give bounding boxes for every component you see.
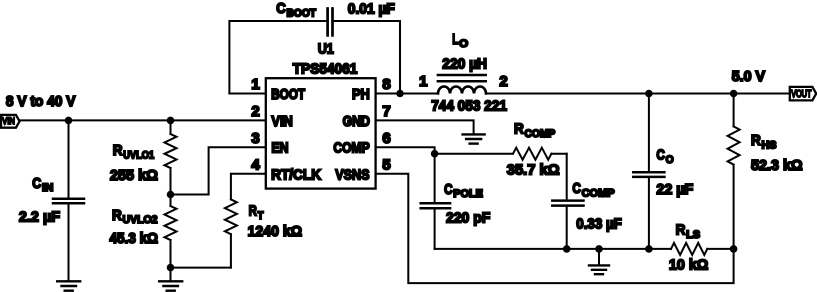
svg-text:5.0 V: 5.0 V xyxy=(732,68,765,85)
ground (GND pin) xyxy=(463,134,485,143)
wire pin 1 stub xyxy=(229,93,265,95)
svg-text:744 053 221: 744 053 221 xyxy=(431,98,507,115)
svg-text:GND: GND xyxy=(343,113,370,130)
svg-text:220 µH: 220 µH xyxy=(442,55,487,72)
node CO top junction xyxy=(645,90,653,98)
svg-text:2.2 µF: 2.2 µF xyxy=(19,208,60,225)
svg-text:1240 kΩ: 1240 kΩ xyxy=(248,223,302,240)
resistor RUVLO1 xyxy=(110,120,177,194)
svg-text:5: 5 xyxy=(382,156,390,173)
node COMP CPOLE junction xyxy=(431,150,439,158)
svg-text:LS: LS xyxy=(686,229,700,241)
svg-text:1: 1 xyxy=(251,76,259,93)
svg-text:BOOT: BOOT xyxy=(271,86,305,103)
output port tag VOUT xyxy=(790,87,816,101)
ground (CIN) xyxy=(57,281,80,290)
wire pin 6 COMP stub xyxy=(376,147,435,154)
node RT ground junction xyxy=(167,264,175,272)
svg-text:45.3 kΩ: 45.3 kΩ xyxy=(110,230,159,247)
capacitor CIN xyxy=(19,120,84,281)
node RHS top junction xyxy=(730,90,738,98)
node feedback junction xyxy=(730,245,738,253)
svg-text:0.33 µF: 0.33 µF xyxy=(576,215,622,232)
svg-text:UVLO1: UVLO1 xyxy=(123,149,154,161)
svg-text:220 pF: 220 pF xyxy=(446,210,490,227)
svg-text:O: O xyxy=(459,38,468,50)
wire pin 8 PH stub xyxy=(376,93,438,95)
node ground junction xyxy=(595,245,603,253)
svg-text:VIN: VIN xyxy=(271,113,292,130)
svg-text:C: C xyxy=(444,181,453,198)
svg-text:UVLO2: UVLO2 xyxy=(123,214,158,226)
resistor RUVLO2 xyxy=(110,195,177,268)
svg-text:C: C xyxy=(656,147,665,164)
resistor RLS xyxy=(669,222,734,274)
ground (compensation) xyxy=(589,249,609,274)
svg-text:EN: EN xyxy=(271,140,288,157)
svg-text:RT/CLK: RT/CLK xyxy=(271,167,321,184)
capacitor CBOOT xyxy=(229,0,400,93)
svg-text:COMP: COMP xyxy=(525,128,556,140)
svg-text:C: C xyxy=(32,175,41,192)
svg-text:R: R xyxy=(751,132,761,149)
svg-text:R: R xyxy=(514,121,524,138)
wire compensation bottom rail xyxy=(435,248,671,250)
inductor LO xyxy=(431,31,507,115)
wire EN to pin 3 xyxy=(171,147,266,194)
node CIN junction xyxy=(65,117,73,125)
svg-text:U1: U1 xyxy=(318,40,334,57)
svg-text:7: 7 xyxy=(382,103,390,120)
wire PH output rail xyxy=(486,93,790,95)
resistor RHS xyxy=(728,94,803,249)
svg-text:C: C xyxy=(276,0,286,17)
svg-text:6: 6 xyxy=(382,130,390,147)
svg-text:22 µF: 22 µF xyxy=(656,181,693,198)
svg-text:8: 8 xyxy=(382,76,390,93)
svg-text:VSNS: VSNS xyxy=(335,167,369,184)
wire pin 7 GND stub xyxy=(376,120,474,134)
svg-text:BOOT: BOOT xyxy=(287,8,317,20)
node PH CBOOT junction xyxy=(396,90,404,98)
svg-text:10 kΩ: 10 kΩ xyxy=(669,257,708,274)
wire RT bottom return xyxy=(171,267,231,269)
svg-text:2: 2 xyxy=(251,103,259,120)
IC U1 TPS54061 body xyxy=(266,40,376,188)
svg-text:POLE: POLE xyxy=(453,188,483,200)
input port tag VIN xyxy=(1,115,20,128)
svg-text:L: L xyxy=(452,31,458,48)
resistor RCOMP xyxy=(435,121,567,179)
svg-text:R: R xyxy=(112,207,122,224)
svg-text:COMP: COMP xyxy=(333,140,369,157)
svg-text:R: R xyxy=(113,142,123,159)
svg-text:35.7 kΩ: 35.7 kΩ xyxy=(507,162,560,179)
svg-text:1: 1 xyxy=(419,73,427,90)
node CO bottom junction xyxy=(645,245,653,253)
wire VIN rail to pin 2 xyxy=(20,119,266,121)
wire pin 5 VSNS feedback xyxy=(376,174,734,283)
node CCOMP bottom junction xyxy=(563,245,571,253)
svg-text:3: 3 xyxy=(251,130,259,147)
svg-text:PH: PH xyxy=(352,86,370,103)
svg-text:TPS54061: TPS54061 xyxy=(293,60,358,77)
svg-text:52.3 kΩ: 52.3 kΩ xyxy=(751,157,803,174)
capacitor CCOMP xyxy=(552,154,622,249)
svg-text:O: O xyxy=(666,154,674,166)
svg-text:T: T xyxy=(258,210,264,222)
svg-text:IN: IN xyxy=(42,182,53,194)
ground (RUVLO2 / RT) xyxy=(159,281,182,290)
svg-text:R: R xyxy=(676,222,686,239)
svg-text:HS: HS xyxy=(762,140,777,152)
svg-text:R: R xyxy=(249,203,257,220)
node EN divider junction xyxy=(167,191,175,199)
svg-text:4: 4 xyxy=(251,156,260,173)
svg-text:COMP: COMP xyxy=(582,187,615,199)
svg-text:255 kΩ: 255 kΩ xyxy=(110,167,158,184)
svg-text:VOUT: VOUT xyxy=(791,89,811,100)
capacitor CPOLE xyxy=(421,154,491,249)
svg-text:8 V to 40 V: 8 V to 40 V xyxy=(6,93,76,110)
svg-text:2: 2 xyxy=(499,73,507,90)
capacitor CO xyxy=(633,94,693,249)
svg-text:0.01 µF: 0.01 µF xyxy=(348,1,395,18)
node RUVLO1 junction xyxy=(167,117,175,125)
svg-text:C: C xyxy=(572,180,581,197)
svg-text:VIN: VIN xyxy=(2,116,15,126)
resistor RT xyxy=(225,174,302,268)
